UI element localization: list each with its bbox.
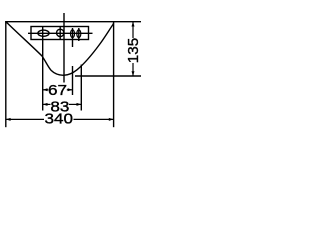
- dim 340 line right w/ arrow: [74, 118, 114, 120]
- svg-text:135: 135: [126, 38, 142, 63]
- top line of fixture + extension for 135: [5, 21, 141, 23]
- extension line for 67 right: [72, 66, 74, 95]
- slot 1 centerline upper: [72, 28, 74, 47]
- mounting circle hole: [57, 29, 64, 36]
- vertical line through circle: [59, 27, 61, 39]
- small slot hole 2: [77, 30, 81, 38]
- dim 67 line right w/ arrow: [67, 89, 73, 91]
- dim 83 line left w/ arrow: [43, 103, 51, 105]
- dim 67 line left w/ arrow: [43, 89, 49, 91]
- fixture bowl profile curve: [6, 22, 113, 75]
- left edge of fixture + extension line for 340: [5, 21, 7, 127]
- slot 2 centerline: [78, 28, 80, 41]
- vertical line through oval / extension for 67 and 83 left: [42, 27, 44, 111]
- dim 83 line right w/ arrow: [69, 103, 81, 105]
- extension line for 83 right: [80, 65, 82, 111]
- svg-text:340: 340: [45, 112, 74, 128]
- dim 135 line top w/ arrow: [132, 22, 134, 38]
- terminal box: [31, 27, 89, 40]
- mounting oval hole: [38, 30, 49, 36]
- vertical centerline of lamp: [63, 13, 65, 83]
- dim 340 line left w/ arrow: [6, 118, 44, 120]
- small slot hole 1: [71, 30, 75, 38]
- dim 135 line bottom w/ arrow: [132, 63, 134, 76]
- right edge + extension line for 340: [113, 21, 115, 127]
- bottom extension line for 135: [75, 75, 141, 77]
- svg-text:67: 67: [48, 83, 67, 99]
- horizontal centerline through box: [28, 32, 93, 34]
